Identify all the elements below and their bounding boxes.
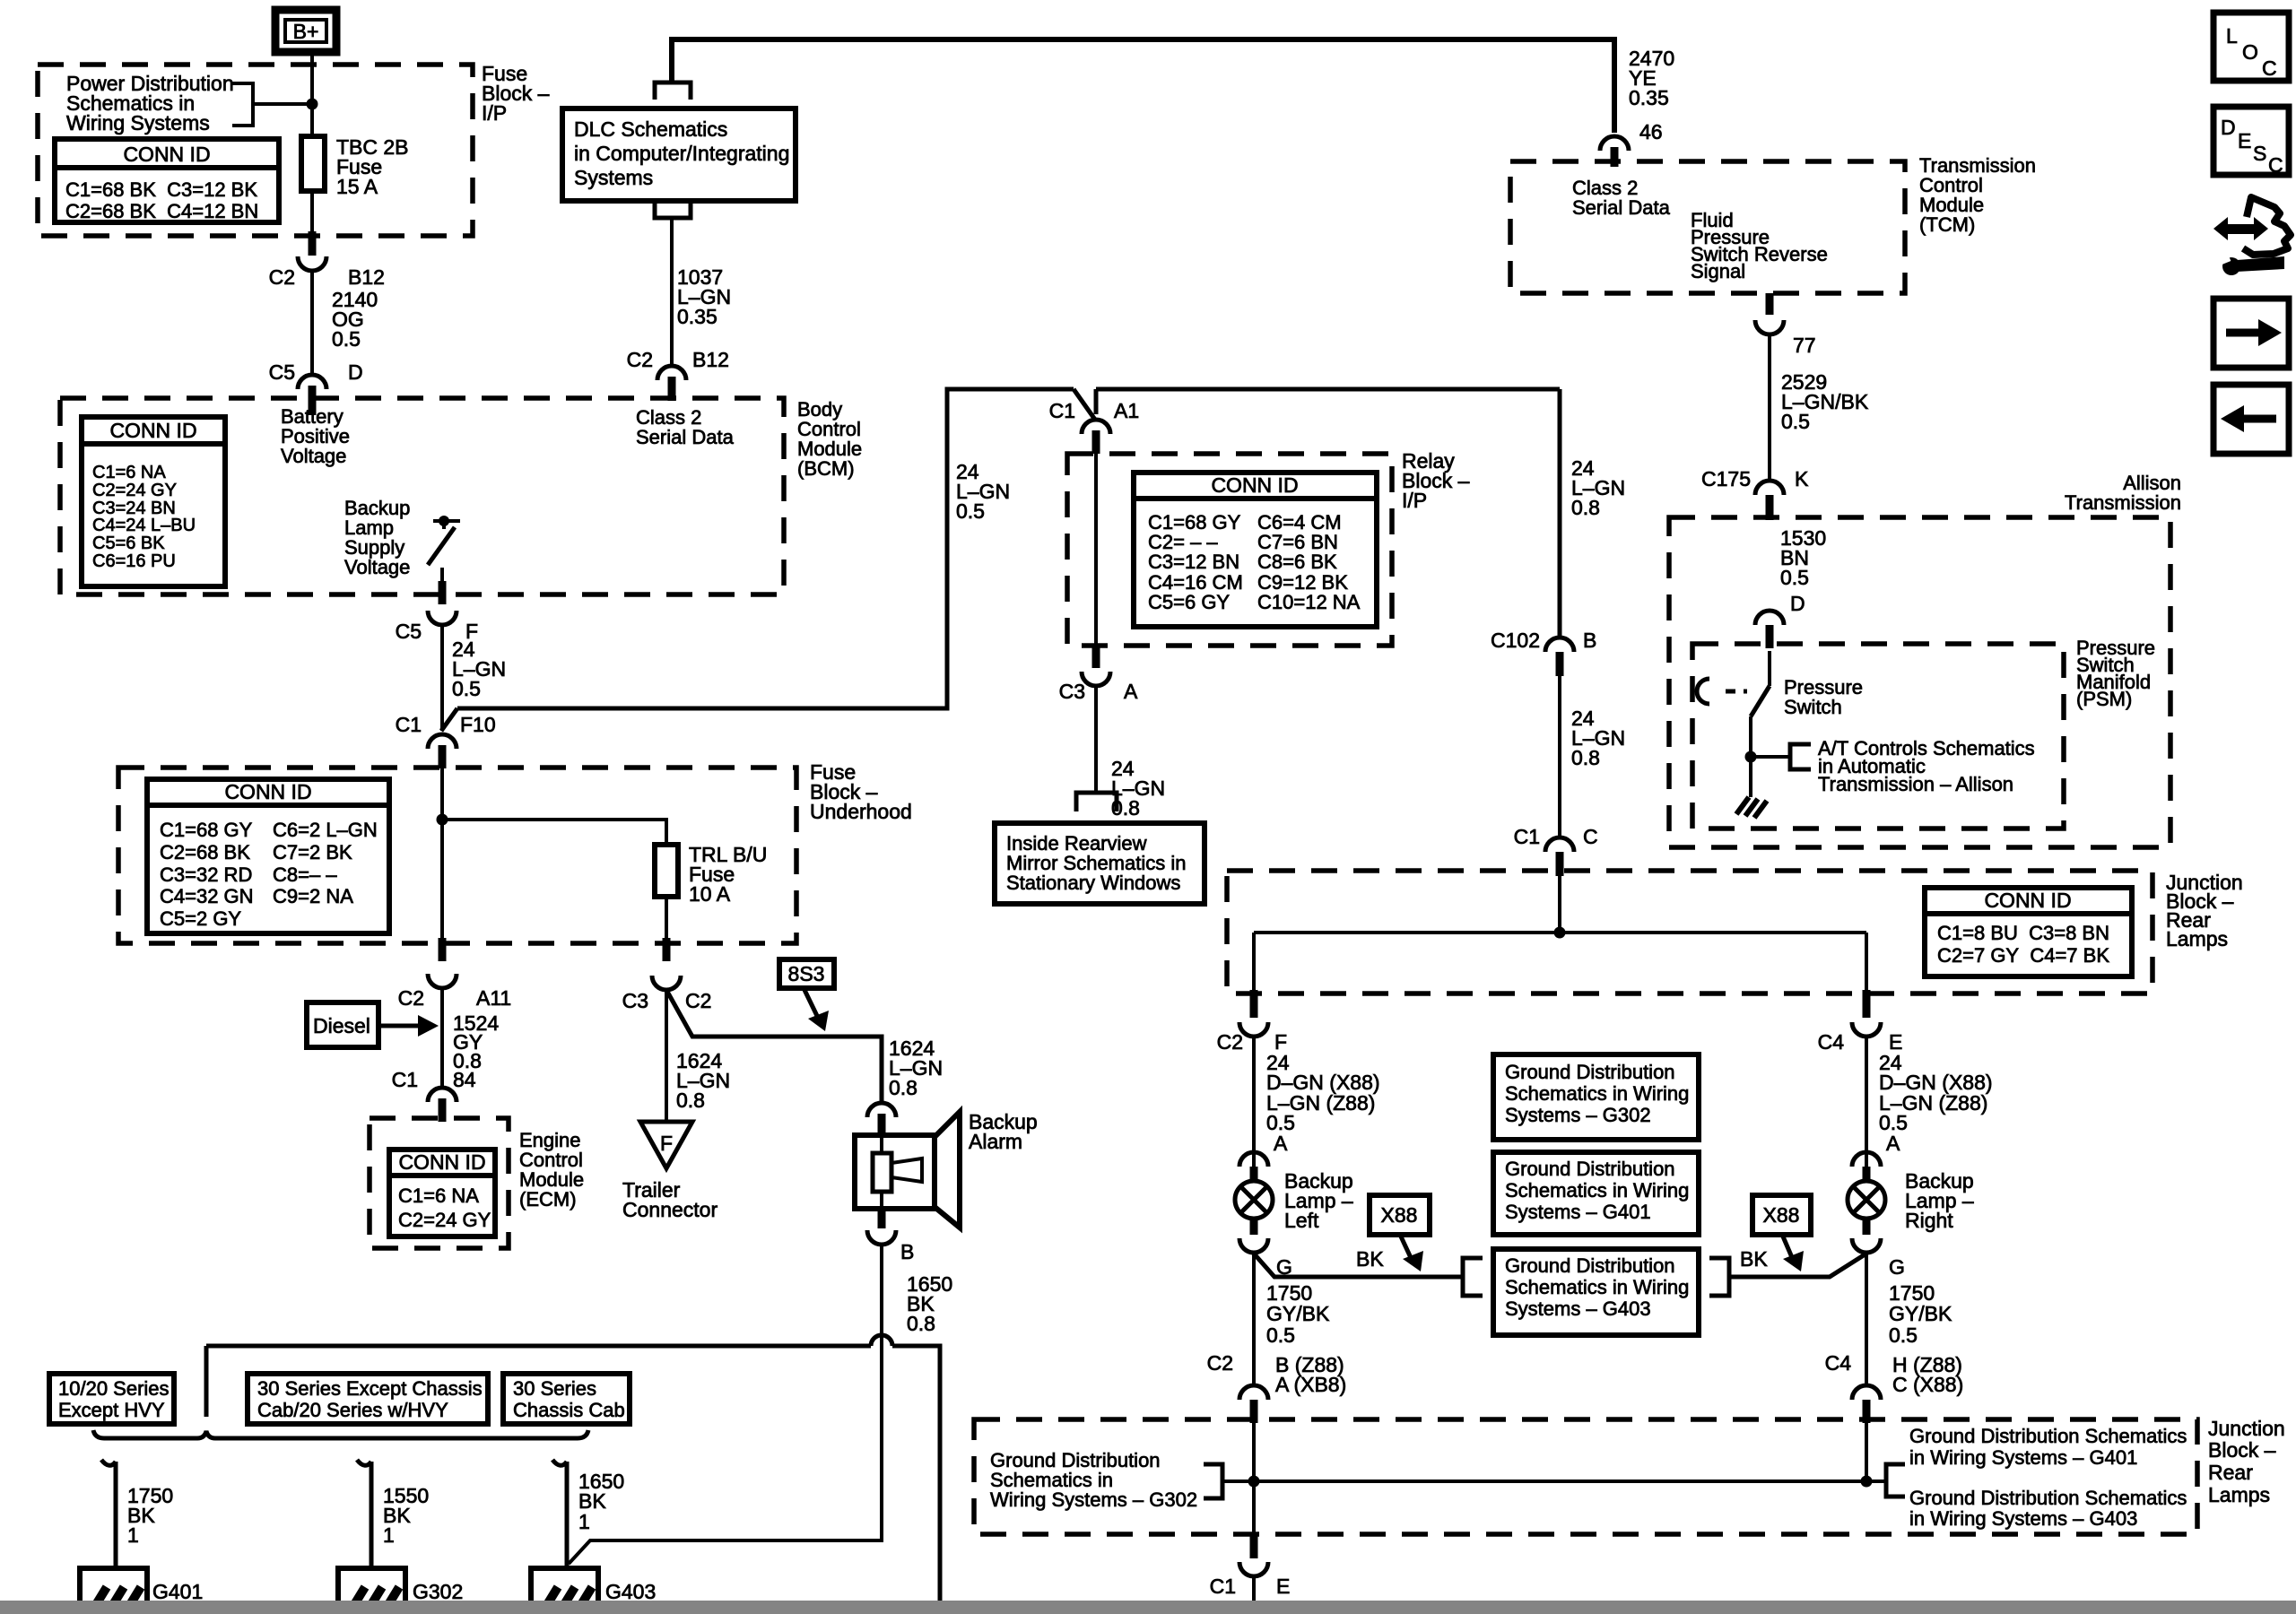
svg-text:Junction: Junction bbox=[2208, 1417, 2285, 1440]
svg-text:S: S bbox=[2253, 142, 2266, 165]
svg-text:Except HVY: Except HVY bbox=[58, 1399, 165, 1421]
svg-text:30 Series Except Chassis: 30 Series Except Chassis bbox=[257, 1377, 483, 1400]
svg-text:CONN ID: CONN ID bbox=[109, 419, 196, 442]
svg-text:C3=12 BN: C3=12 BN bbox=[1148, 551, 1239, 573]
svg-text:C1: C1 bbox=[392, 1068, 418, 1091]
svg-text:B+: B+ bbox=[293, 20, 319, 43]
svg-text:C1: C1 bbox=[1049, 399, 1075, 422]
svg-text:C2: C2 bbox=[685, 989, 711, 1012]
svg-text:Lamps: Lamps bbox=[2208, 1483, 2270, 1506]
svg-text:DLC Schematics: DLC Schematics bbox=[574, 117, 727, 141]
svg-text:Block –: Block – bbox=[2208, 1438, 2276, 1462]
svg-text:D: D bbox=[348, 360, 363, 384]
svg-text:C5: C5 bbox=[396, 620, 422, 643]
svg-text:C1: C1 bbox=[396, 713, 422, 736]
svg-text:0.5: 0.5 bbox=[956, 499, 985, 523]
svg-text:0.8: 0.8 bbox=[907, 1312, 935, 1335]
svg-text:C1=68 BK C3=12 BK: C1=68 BK C3=12 BK bbox=[65, 178, 257, 201]
svg-text:BK: BK bbox=[1356, 1247, 1384, 1271]
svg-text:F: F bbox=[660, 1132, 673, 1155]
svg-text:C5: C5 bbox=[269, 360, 295, 384]
svg-text:in Computer/Integrating: in Computer/Integrating bbox=[574, 142, 789, 165]
svg-text:Ground Distribution: Ground Distribution bbox=[1505, 1254, 1675, 1277]
svg-text:B12: B12 bbox=[348, 265, 385, 289]
svg-text:C: C bbox=[2262, 56, 2277, 80]
svg-text:(ECM): (ECM) bbox=[519, 1188, 577, 1210]
svg-text:C8=– –: C8=– – bbox=[273, 863, 337, 886]
svg-text:A: A bbox=[1886, 1132, 1900, 1155]
svg-text:C6=16 PU: C6=16 PU bbox=[92, 551, 176, 571]
svg-text:Wiring Systems: Wiring Systems bbox=[66, 111, 210, 134]
svg-text:0.5: 0.5 bbox=[1780, 566, 1809, 589]
svg-text:C3=32 RD: C3=32 RD bbox=[160, 863, 252, 886]
svg-text:BK: BK bbox=[1740, 1247, 1768, 1271]
svg-text:Rear: Rear bbox=[2208, 1461, 2253, 1484]
svg-text:10/20 Series: 10/20 Series bbox=[58, 1377, 170, 1400]
svg-text:C9=2 NA: C9=2 NA bbox=[273, 885, 353, 907]
svg-text:Schematics in Wiring: Schematics in Wiring bbox=[1505, 1082, 1689, 1105]
svg-text:C5=6 BK: C5=6 BK bbox=[92, 534, 165, 553]
svg-text:0.5: 0.5 bbox=[1781, 410, 1810, 433]
svg-text:0.8: 0.8 bbox=[1571, 746, 1600, 769]
svg-text:C5=6 GY: C5=6 GY bbox=[1148, 591, 1230, 613]
svg-text:in Wiring Systems – G401: in Wiring Systems – G401 bbox=[1909, 1446, 2137, 1469]
svg-text:Left: Left bbox=[1284, 1209, 1319, 1232]
svg-text:0.5: 0.5 bbox=[332, 327, 361, 351]
svg-text:Transmission – Allison: Transmission – Allison bbox=[1818, 773, 2013, 795]
svg-text:K: K bbox=[1795, 467, 1809, 490]
svg-text:C1=8 BU C3=8 BN: C1=8 BU C3=8 BN bbox=[1937, 922, 2109, 944]
svg-text:X88: X88 bbox=[1763, 1203, 1800, 1227]
svg-text:C2=24 GY: C2=24 GY bbox=[398, 1209, 491, 1231]
svg-text:Lamps: Lamps bbox=[2166, 927, 2228, 950]
svg-text:C2: C2 bbox=[1207, 1351, 1233, 1375]
svg-text:CONN ID: CONN ID bbox=[1211, 473, 1298, 497]
svg-text:O: O bbox=[2242, 40, 2258, 64]
svg-text:C4=24 L–BU: C4=24 L–BU bbox=[92, 516, 196, 535]
svg-text:A: A bbox=[1124, 680, 1138, 703]
svg-text:E: E bbox=[1276, 1575, 1290, 1598]
svg-text:Voltage: Voltage bbox=[281, 445, 346, 467]
svg-text:C: C bbox=[2268, 153, 2283, 177]
svg-text:C10=12 NA: C10=12 NA bbox=[1257, 591, 1361, 613]
svg-text:L: L bbox=[2226, 24, 2238, 48]
svg-text:(BCM): (BCM) bbox=[797, 457, 855, 480]
svg-text:CONN ID: CONN ID bbox=[398, 1150, 485, 1174]
svg-text:10 A: 10 A bbox=[689, 882, 731, 906]
svg-text:B: B bbox=[900, 1240, 914, 1263]
svg-text:30 Series: 30 Series bbox=[513, 1377, 596, 1400]
svg-text:GY/BK: GY/BK bbox=[1266, 1302, 1330, 1325]
svg-text:Schematics in Wiring: Schematics in Wiring bbox=[1505, 1276, 1689, 1298]
svg-text:0.5: 0.5 bbox=[1266, 1323, 1295, 1347]
svg-text:Ground Distribution: Ground Distribution bbox=[1505, 1061, 1675, 1083]
svg-text:46: 46 bbox=[1639, 120, 1663, 143]
svg-text:C2=68 BK: C2=68 BK bbox=[160, 841, 250, 863]
svg-text:Ground Distribution Schematics: Ground Distribution Schematics bbox=[1909, 1487, 2187, 1509]
svg-text:A (XB8): A (XB8) bbox=[1275, 1373, 1346, 1396]
svg-text:CONN ID: CONN ID bbox=[123, 143, 210, 166]
svg-text:Systems – G403: Systems – G403 bbox=[1505, 1297, 1651, 1320]
svg-text:0.35: 0.35 bbox=[677, 305, 717, 328]
svg-text:B: B bbox=[1583, 629, 1596, 652]
svg-text:(TCM): (TCM) bbox=[1919, 213, 1975, 236]
svg-text:C7=2 BK: C7=2 BK bbox=[273, 841, 352, 863]
svg-text:A1: A1 bbox=[1114, 399, 1139, 422]
svg-text:C1: C1 bbox=[1210, 1575, 1236, 1598]
svg-text:1: 1 bbox=[383, 1523, 395, 1547]
svg-text:C4: C4 bbox=[1825, 1351, 1852, 1375]
svg-text:Systems – G401: Systems – G401 bbox=[1505, 1201, 1651, 1223]
svg-text:Ground Distribution Schematics: Ground Distribution Schematics bbox=[1909, 1425, 2187, 1447]
svg-text:in Wiring Systems – G403: in Wiring Systems – G403 bbox=[1909, 1507, 2137, 1530]
svg-text:Signal: Signal bbox=[1691, 260, 1745, 282]
svg-text:C2=7 GY C4=7 BK: C2=7 GY C4=7 BK bbox=[1937, 944, 2109, 967]
svg-text:0.5: 0.5 bbox=[452, 677, 481, 700]
svg-text:G403: G403 bbox=[605, 1580, 656, 1603]
svg-text:CONN ID: CONN ID bbox=[1984, 889, 2071, 912]
svg-text:Alarm: Alarm bbox=[969, 1130, 1022, 1153]
svg-text:C1=68 GY: C1=68 GY bbox=[160, 819, 253, 841]
svg-text:0.8: 0.8 bbox=[1571, 496, 1600, 519]
svg-text:Schematics in Wiring: Schematics in Wiring bbox=[1505, 1179, 1689, 1202]
svg-text:0.35: 0.35 bbox=[1629, 86, 1669, 109]
svg-text:0.8: 0.8 bbox=[676, 1089, 705, 1112]
svg-text:C2: C2 bbox=[1217, 1030, 1243, 1054]
svg-text:Diesel: Diesel bbox=[313, 1014, 370, 1037]
svg-text:0.8: 0.8 bbox=[889, 1076, 918, 1099]
svg-text:C2: C2 bbox=[627, 348, 653, 371]
svg-text:G401: G401 bbox=[152, 1580, 203, 1603]
svg-text:C: C bbox=[1583, 825, 1598, 848]
svg-text:I/P: I/P bbox=[482, 101, 507, 125]
svg-text:8S3: 8S3 bbox=[788, 962, 825, 985]
svg-text:A: A bbox=[1274, 1132, 1288, 1155]
svg-text:C2: C2 bbox=[398, 986, 424, 1010]
svg-text:G: G bbox=[1889, 1255, 1905, 1279]
svg-text:15 A: 15 A bbox=[336, 175, 378, 198]
svg-text:D: D bbox=[2221, 116, 2236, 139]
svg-text:C175: C175 bbox=[1701, 467, 1751, 490]
svg-text:X88: X88 bbox=[1381, 1203, 1418, 1227]
svg-text:Systems: Systems bbox=[574, 166, 653, 189]
svg-text:Voltage: Voltage bbox=[344, 556, 410, 578]
svg-text:Serial Data: Serial Data bbox=[1572, 196, 1671, 219]
svg-text:Stationary Windows: Stationary Windows bbox=[1006, 872, 1180, 894]
svg-text:Systems – G302: Systems – G302 bbox=[1505, 1104, 1651, 1126]
svg-text:C1=6 NA: C1=6 NA bbox=[398, 1184, 479, 1207]
svg-text:C1: C1 bbox=[1514, 825, 1540, 848]
svg-text:Cab/20 Series w/HVY: Cab/20 Series w/HVY bbox=[257, 1399, 448, 1421]
svg-text:C4=32 GN: C4=32 GN bbox=[160, 885, 254, 907]
svg-text:F10: F10 bbox=[460, 713, 496, 736]
svg-text:D: D bbox=[1790, 592, 1805, 615]
svg-text:Right: Right bbox=[1905, 1209, 1953, 1232]
svg-text:C5=2 GY: C5=2 GY bbox=[160, 907, 241, 930]
svg-text:C (X88): C (X88) bbox=[1892, 1373, 1963, 1396]
svg-text:GY/BK: GY/BK bbox=[1889, 1302, 1952, 1325]
svg-text:C2: C2 bbox=[269, 265, 295, 289]
svg-text:84: 84 bbox=[453, 1068, 476, 1091]
svg-text:C3: C3 bbox=[622, 989, 648, 1012]
svg-text:C1=6 NA: C1=6 NA bbox=[92, 463, 166, 482]
svg-text:Wiring Systems – G302: Wiring Systems – G302 bbox=[990, 1488, 1197, 1511]
svg-text:C102: C102 bbox=[1491, 629, 1540, 652]
svg-text:I/P: I/P bbox=[1402, 489, 1427, 512]
svg-text:Serial Data: Serial Data bbox=[636, 426, 735, 448]
svg-text:C2=24 GY: C2=24 GY bbox=[92, 481, 177, 500]
svg-text:C3: C3 bbox=[1059, 680, 1085, 703]
svg-text:E: E bbox=[2238, 129, 2251, 152]
svg-text:Transmission: Transmission bbox=[2065, 491, 2181, 514]
svg-text:C4: C4 bbox=[1818, 1030, 1845, 1054]
svg-text:Chassis Cab: Chassis Cab bbox=[513, 1399, 625, 1421]
svg-text:C2=68 BK C4=12 BN: C2=68 BK C4=12 BN bbox=[65, 200, 258, 222]
svg-text:C8=6 BK: C8=6 BK bbox=[1257, 551, 1337, 573]
svg-text:(PSM): (PSM) bbox=[2076, 688, 2132, 710]
svg-text:77: 77 bbox=[1793, 334, 1816, 357]
svg-text:Switch: Switch bbox=[1784, 696, 1842, 718]
svg-text:1: 1 bbox=[578, 1510, 590, 1533]
svg-text:CONN ID: CONN ID bbox=[224, 780, 311, 803]
svg-text:Ground Distribution: Ground Distribution bbox=[1505, 1158, 1675, 1180]
svg-text:B12: B12 bbox=[692, 348, 729, 371]
svg-text:G302: G302 bbox=[413, 1580, 463, 1603]
svg-text:Underhood: Underhood bbox=[810, 800, 912, 823]
svg-text:C6=2 L–GN: C6=2 L–GN bbox=[273, 819, 378, 841]
svg-text:1: 1 bbox=[127, 1523, 139, 1547]
svg-text:A11: A11 bbox=[476, 986, 511, 1010]
svg-text:0.5: 0.5 bbox=[1889, 1323, 1918, 1347]
svg-text:Connector: Connector bbox=[622, 1198, 717, 1221]
